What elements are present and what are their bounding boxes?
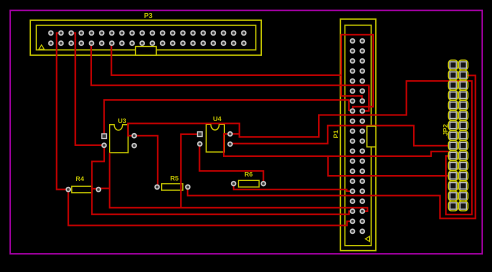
svg-text:R5: R5 [170, 175, 179, 182]
svg-text:P3: P3 [144, 13, 153, 20]
svg-text:U4: U4 [213, 116, 222, 123]
svg-text:U3: U3 [118, 118, 127, 125]
svg-text:R6: R6 [244, 171, 253, 178]
svg-text:R4: R4 [76, 176, 85, 183]
svg-text:JP2: JP2 [442, 124, 449, 136]
svg-text:P1: P1 [333, 130, 340, 138]
